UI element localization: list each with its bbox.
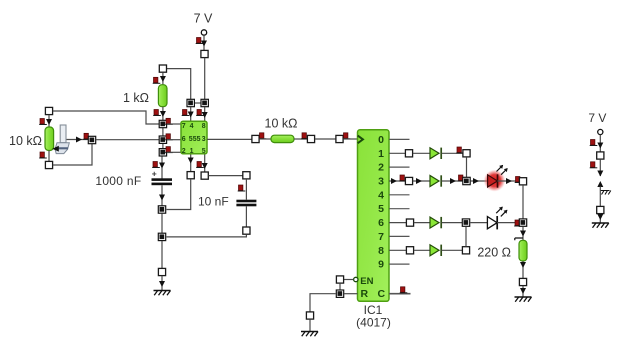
stub pin0 xyxy=(389,138,410,140)
wire pot top to pin7 junction xyxy=(53,111,159,124)
box pin3 wire xyxy=(252,135,259,142)
current arrow ground left xyxy=(159,281,165,287)
potentiometer VR1 body xyxy=(45,127,54,151)
svg-text:C: C xyxy=(378,288,386,300)
junction A pin1/C1 xyxy=(158,206,165,213)
wire box to R2 xyxy=(162,72,164,85)
svg-text:7: 7 xyxy=(378,231,384,243)
svg-text:10 kΩ: 10 kΩ xyxy=(9,134,42,148)
wire row8 corner up to row6 junction xyxy=(465,227,467,247)
svg-text:4: 4 xyxy=(378,189,384,201)
clock chevron xyxy=(358,136,363,144)
wire row1 corner down xyxy=(466,157,468,177)
box row1 xyxy=(405,150,412,157)
wire junction to 555 pin4 xyxy=(190,107,192,123)
wire row6 junction down to R4 xyxy=(522,227,524,241)
wire junction to R pin xyxy=(344,293,358,295)
current arrow R2 top xyxy=(160,76,166,82)
slider mark R4 xyxy=(515,238,523,240)
wire LED1 to box xyxy=(498,180,520,182)
current marker pin5 xyxy=(196,162,204,168)
wire junction to 555 pin8 xyxy=(204,107,206,123)
svg-text:1: 1 xyxy=(378,148,384,160)
svg-text:1: 1 xyxy=(190,148,194,155)
node wire A to B xyxy=(161,214,163,238)
LED2 rays xyxy=(496,207,507,217)
wire box to D4 xyxy=(414,249,430,251)
current marker R3 left xyxy=(259,133,267,139)
wire junction B to ground xyxy=(161,241,163,268)
LED1 rays xyxy=(497,165,508,175)
resistor R4 220 Ohm body xyxy=(519,240,527,261)
wire 555 pin3 out xyxy=(207,138,252,140)
wire to 555 pin2 xyxy=(167,151,181,153)
wire 555 pin5 down xyxy=(204,155,206,173)
wire box to D3 xyxy=(414,222,430,224)
svg-text:7 V: 7 V xyxy=(588,111,606,125)
wire pot top box down xyxy=(48,115,50,128)
junction row6 right xyxy=(519,219,526,226)
current marker C1 top xyxy=(152,162,160,168)
current arrow pot top xyxy=(46,119,52,125)
stub pin9 xyxy=(389,263,410,265)
current marker C out xyxy=(400,287,408,293)
junction EN/R xyxy=(336,290,343,297)
LED1 lit body xyxy=(488,175,498,187)
current arrow pin8 xyxy=(202,112,208,118)
svg-text:0: 0 xyxy=(378,134,384,146)
svg-text:(4017): (4017) xyxy=(356,315,391,329)
wire box to R3 xyxy=(259,138,271,140)
ground G1 xyxy=(154,291,171,296)
current marker R3 right xyxy=(301,133,309,139)
svg-text:5: 5 xyxy=(202,148,206,155)
junction B ground node xyxy=(158,233,165,240)
current arrow wiper xyxy=(76,137,82,143)
box row3 xyxy=(405,177,412,184)
current arrow ground xyxy=(520,288,526,294)
diode D1 xyxy=(430,148,441,159)
box on R4 ground wire xyxy=(519,278,526,285)
wire LED2 to junction xyxy=(497,222,519,224)
wire to 555 pin7 xyxy=(167,123,181,125)
LED1 glow xyxy=(484,170,506,192)
wire box to ground xyxy=(522,286,524,297)
current arrow row3 b xyxy=(416,178,422,184)
current arrow row3 e xyxy=(506,178,512,184)
current marker row3 a xyxy=(399,175,407,181)
box right supply xyxy=(597,152,604,159)
wire junction to LED2 xyxy=(470,222,488,224)
wire D2 to junction xyxy=(442,180,463,182)
connection box on 7V wire xyxy=(201,50,208,57)
wire C2 to box xyxy=(245,206,247,227)
wire terminal to box xyxy=(599,135,601,152)
ground G2 xyxy=(301,332,318,337)
wire pot bottom xyxy=(48,151,50,162)
row pin3: wire to box xyxy=(389,180,405,182)
LED2 unlit body xyxy=(487,217,497,229)
junction pin7 xyxy=(159,120,166,127)
diode D3 xyxy=(430,217,441,228)
wire EN box down to R junction xyxy=(339,283,341,293)
current arrow pin5 xyxy=(202,163,208,169)
svg-text:R: R xyxy=(361,288,369,300)
current marker pin2 xyxy=(165,147,173,153)
junction pin6 xyxy=(159,136,166,143)
current marker R2 bottom xyxy=(153,110,161,116)
box on pin5 wire xyxy=(201,172,208,179)
pot wiper arrow xyxy=(52,146,59,152)
op 555 timer U1 body xyxy=(181,121,207,154)
wire down to C2 xyxy=(245,179,247,200)
current marker pin4 xyxy=(182,110,190,116)
stub pin7 xyxy=(389,235,410,237)
box before 4017 clock xyxy=(336,135,343,142)
svg-text:1 kΩ: 1 kΩ xyxy=(123,91,149,105)
ground G3 xyxy=(515,297,532,302)
junction pin8 xyxy=(201,99,208,106)
svg-text:555: 555 xyxy=(189,136,201,143)
current arrow C1 top xyxy=(159,163,165,169)
wire to clock box xyxy=(315,138,336,140)
current marker row6 xyxy=(514,220,522,226)
wire D3 to junction xyxy=(442,222,463,224)
wire C2 box to junction B xyxy=(167,234,247,237)
row pin8: wire to box xyxy=(389,249,406,251)
current marker right b xyxy=(590,162,598,168)
current marker row3 b xyxy=(458,175,466,181)
svg-text:6: 6 xyxy=(182,136,186,143)
box C2 top corner xyxy=(243,172,250,179)
svg-text:8: 8 xyxy=(378,245,384,257)
box on reset ground wire xyxy=(306,312,313,319)
current marker right a xyxy=(590,140,598,146)
wire pin1 box to junction A xyxy=(167,179,191,210)
wire R4 down xyxy=(522,261,524,278)
current marker pin8 xyxy=(196,110,204,116)
wire 555 pin1 down xyxy=(190,155,192,172)
svg-text:5: 5 xyxy=(378,203,384,215)
current arrow xyxy=(201,41,207,47)
pot bottom box xyxy=(45,161,52,168)
current arrow row3 c xyxy=(450,178,456,184)
wire C1 to junction A xyxy=(161,185,163,205)
svg-text:220 Ω: 220 Ω xyxy=(477,246,511,260)
current arrow R2 bottom xyxy=(160,111,166,117)
current marker R2 top xyxy=(153,77,161,83)
box on ground wire xyxy=(158,268,165,275)
svg-text:2: 2 xyxy=(182,148,186,155)
capacitor C2 10nF plates xyxy=(236,200,256,203)
current arrow C1 bottom xyxy=(159,195,165,201)
wire junction to LED1 xyxy=(471,180,488,182)
wire pin2 junction down to C1 xyxy=(161,157,163,179)
svg-text:10 nF: 10 nF xyxy=(198,195,229,209)
svg-text:6: 6 xyxy=(378,217,384,229)
row pin1: wire to box xyxy=(389,152,406,154)
current arrow row3 a xyxy=(391,178,397,184)
current arrow R4 top xyxy=(520,231,526,237)
node wire pin7/6/2 vertical xyxy=(162,124,164,152)
wire 1k top to pin4 drop xyxy=(167,69,191,99)
current marker row3 c xyxy=(515,177,523,183)
current marker wiper xyxy=(83,133,91,139)
wire R2 to junction xyxy=(162,107,164,120)
svg-text:1000 nF: 1000 nF xyxy=(95,174,141,188)
svg-text:2: 2 xyxy=(378,162,384,174)
pot top box xyxy=(45,107,52,114)
junction pin4 xyxy=(187,99,194,106)
node pins 4-8 tie wire xyxy=(191,102,205,104)
wire box to ground xyxy=(599,214,601,223)
stub pin4 xyxy=(389,194,410,196)
wire pot bottom loop to wiper xyxy=(53,144,92,165)
box C2 bottom corner xyxy=(243,227,250,234)
box row6 xyxy=(406,219,413,226)
wire box to D1 xyxy=(413,152,430,154)
box row1 right corner xyxy=(463,150,470,157)
wire EN xyxy=(344,279,354,281)
current marker xyxy=(196,38,204,44)
svg-text:7: 7 xyxy=(182,123,186,130)
wire box down xyxy=(599,159,601,176)
box after R3 xyxy=(307,135,314,142)
resistor R2 1 kOhm body xyxy=(158,85,167,107)
box row8 corner xyxy=(462,247,469,254)
svg-text:4: 4 xyxy=(190,123,194,130)
junction pin2 xyxy=(159,149,166,156)
wire earth down xyxy=(599,187,601,207)
wire box to ground xyxy=(161,276,163,290)
junction row3 xyxy=(463,177,470,184)
power terminal 7V left xyxy=(201,30,206,35)
stub pin2 xyxy=(389,166,410,168)
current marker D1 xyxy=(456,147,464,153)
box earth wire xyxy=(597,206,604,213)
box EN xyxy=(336,276,343,283)
current marker pin6 xyxy=(165,134,173,140)
current arrow right a xyxy=(597,143,603,149)
diode D2 xyxy=(430,175,441,186)
svg-text:10 kΩ: 10 kΩ xyxy=(265,117,298,131)
wire junction to ground right xyxy=(310,294,336,312)
current marker pot bottom xyxy=(39,152,47,158)
current arrow R4 bottom xyxy=(520,262,526,268)
wire C output stub xyxy=(389,293,411,295)
svg-text:3: 3 xyxy=(202,136,206,143)
pot slider handle xyxy=(60,125,66,143)
svg-text:+: + xyxy=(152,168,157,178)
current arrow pin4 xyxy=(188,112,194,118)
box on pin1 wire xyxy=(187,172,194,179)
wire box to pin8 junction xyxy=(204,58,206,99)
wire wiper junction to pin6 junction xyxy=(96,139,159,141)
current arrow right b xyxy=(597,171,603,177)
svg-text:EN: EN xyxy=(360,276,373,287)
power terminal 7V right xyxy=(598,129,603,134)
IC1 4017 body xyxy=(358,130,390,301)
current arrow row3 d xyxy=(473,178,479,184)
wire to 555 pin6 xyxy=(167,139,181,141)
pot slider base xyxy=(55,143,69,154)
resistor R3 10 kOhm body xyxy=(271,135,294,142)
EN bubble xyxy=(354,277,358,281)
wire box to ground xyxy=(309,319,311,331)
diode D4 xyxy=(430,245,441,256)
wiper junction xyxy=(88,136,95,143)
wire row3 corner down to junction xyxy=(522,185,524,218)
wire box to D2 xyxy=(413,180,430,182)
stub pin5 xyxy=(389,208,410,210)
svg-text:9: 9 xyxy=(378,259,384,271)
wire 7V terminal to box xyxy=(203,35,205,50)
svg-text:3: 3 xyxy=(378,176,384,188)
current marker pot top xyxy=(39,119,47,125)
box row8 xyxy=(406,247,413,254)
wire R3 to box xyxy=(294,138,308,140)
wire D4 to corner box xyxy=(442,249,463,251)
row pin6: wire to box xyxy=(389,222,406,224)
svg-text:8: 8 xyxy=(202,123,206,130)
box row3 right corner xyxy=(519,178,526,185)
svg-text:7 V: 7 V xyxy=(194,11,213,25)
wire D1 to corner box xyxy=(442,152,463,154)
mini earth mark xyxy=(600,191,611,195)
resistor R2 1k top box xyxy=(159,65,166,72)
current arrow pin1 xyxy=(188,158,194,164)
ground G4 xyxy=(592,223,609,228)
wire box to 4017 xyxy=(343,138,357,140)
capacitor C1 1000nF plates xyxy=(152,178,173,181)
current marker pin7 xyxy=(165,118,173,124)
current marker clock xyxy=(343,133,351,139)
current arrow earth xyxy=(597,214,603,220)
wiper wire to junction box xyxy=(65,139,88,141)
current marker C2 xyxy=(238,185,246,191)
junction row6 xyxy=(462,219,469,226)
wire pin5 box to C2 box xyxy=(209,175,243,177)
earth terminal arrow up xyxy=(597,181,603,187)
